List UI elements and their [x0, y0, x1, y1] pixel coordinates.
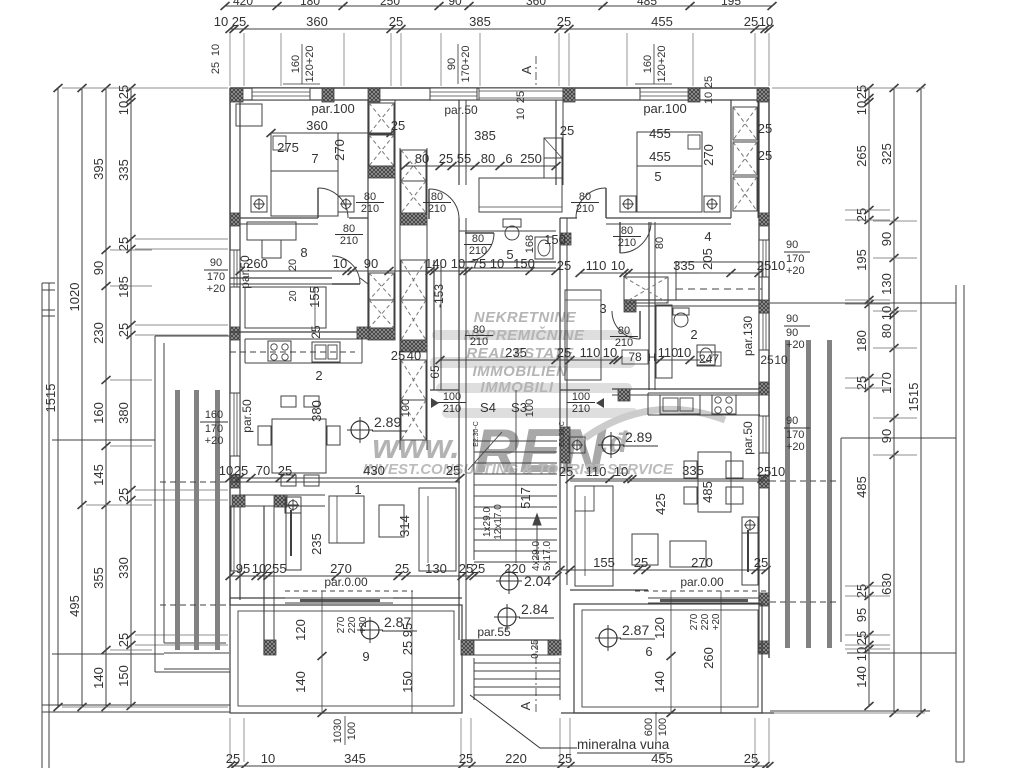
- svg-text:395: 395: [91, 158, 106, 180]
- elevation 2.84 stair: [498, 608, 516, 626]
- svg-text:430: 430: [363, 463, 385, 478]
- svg-text:247: 247: [699, 352, 719, 366]
- svg-text:210: 210: [340, 235, 358, 247]
- bath2 bidet: [697, 345, 715, 365]
- svg-text:5: 5: [654, 169, 661, 184]
- right chain 1515: [920, 88, 922, 713]
- row y269 left: [240, 270, 556, 272]
- right chain fine: [868, 88, 870, 706]
- svg-text:4: 4: [704, 229, 711, 244]
- svg-text:100: 100: [657, 718, 669, 736]
- dining table left: [272, 419, 326, 473]
- left extension lines: [62, 87, 228, 89]
- svg-text:S4: S4: [480, 400, 496, 415]
- svg-text:140: 140: [854, 666, 869, 688]
- svg-text:10: 10: [210, 44, 222, 56]
- svg-text:55: 55: [457, 151, 471, 166]
- left chain 1515: [57, 88, 59, 707]
- svg-text:4x29.0: 4x29.0: [531, 541, 542, 571]
- svg-text:160: 160: [91, 402, 106, 424]
- svg-text:10: 10: [677, 345, 691, 360]
- svg-text:150: 150: [400, 671, 415, 693]
- sink right: [660, 395, 700, 414]
- svg-text:25: 25: [471, 561, 485, 576]
- svg-text:25: 25: [232, 14, 246, 29]
- svg-text:140: 140: [652, 671, 667, 693]
- svg-text:25: 25: [234, 463, 248, 478]
- svg-text:1020: 1020: [67, 283, 82, 312]
- svg-text:75: 75: [472, 256, 486, 271]
- svg-text:100: 100: [400, 399, 412, 417]
- room8 dresser: [247, 222, 296, 240]
- svg-text:10: 10: [614, 464, 628, 479]
- svg-text:+20: +20: [786, 265, 805, 277]
- svg-text:25: 25: [557, 258, 571, 273]
- svg-text:110: 110: [586, 464, 607, 479]
- svg-text:10: 10: [515, 108, 527, 120]
- stair enclosure: [473, 430, 475, 560]
- svg-text:2.89: 2.89: [374, 414, 401, 430]
- window left 90/170: [230, 250, 240, 287]
- door room8: [332, 256, 360, 284]
- svg-text:25: 25: [854, 631, 869, 645]
- 78 box + H: [622, 350, 648, 364]
- sofa left unit: [419, 488, 456, 571]
- svg-text:150: 150: [544, 232, 566, 247]
- svg-text:25: 25: [559, 464, 573, 479]
- svg-text:110: 110: [658, 345, 679, 360]
- row y479 right: [570, 478, 762, 480]
- svg-text:260: 260: [246, 256, 268, 271]
- svg-text:1: 1: [354, 482, 361, 497]
- room3 closet xbox: [624, 277, 668, 303]
- svg-text:95: 95: [854, 608, 869, 622]
- window left 160/170: [230, 393, 240, 456]
- right pergola dashed ties: [770, 480, 838, 482]
- dashed par line right terrace: [635, 590, 770, 592]
- coffee table left: [379, 505, 404, 537]
- svg-text:455: 455: [649, 126, 671, 141]
- svg-text:25: 25: [265, 561, 279, 576]
- svg-text:160: 160: [642, 55, 654, 73]
- svg-text:360: 360: [526, 0, 546, 8]
- wall right unit bath top: [624, 299, 759, 301]
- svg-text:235: 235: [309, 533, 324, 555]
- svg-text:270: 270: [689, 613, 700, 630]
- bottom extension lines: [229, 718, 231, 762]
- left chain segments: [105, 88, 107, 707]
- svg-text:10: 10: [451, 256, 465, 271]
- svg-text:25: 25: [210, 62, 222, 74]
- svg-text:25: 25: [439, 151, 453, 166]
- svg-text:2: 2: [690, 327, 697, 342]
- svg-text:170: 170: [207, 271, 225, 283]
- svg-text:140: 140: [425, 256, 447, 271]
- svg-text:185: 185: [116, 276, 131, 298]
- stair treads: [474, 440, 557, 442]
- svg-text:10: 10: [261, 751, 275, 766]
- svg-text:25: 25: [757, 258, 771, 273]
- top extension lines: [229, 33, 231, 86]
- svg-text:168: 168: [524, 235, 536, 253]
- terrace 6 outline: [574, 604, 762, 713]
- svg-text:25: 25: [309, 325, 323, 339]
- svg-text:360: 360: [306, 14, 328, 29]
- svg-text:E2.30-C: E2.30-C: [473, 421, 480, 447]
- stove right: [712, 395, 736, 414]
- svg-text:80: 80: [415, 151, 429, 166]
- svg-text:90: 90: [786, 415, 798, 427]
- wall living bottom left + slider: [230, 597, 285, 599]
- left pergola dashed ties: [160, 481, 228, 483]
- wall right kitchen top: [612, 388, 759, 390]
- room7 nightstand left: [251, 196, 267, 212]
- svg-text:25: 25: [744, 14, 758, 29]
- window right 90 par130: [759, 313, 769, 350]
- svg-text:270: 270: [332, 139, 347, 161]
- room3 bed: [565, 290, 601, 380]
- svg-text:25: 25: [395, 561, 409, 576]
- svg-text:10: 10: [333, 256, 347, 271]
- svg-text:25: 25: [560, 123, 574, 138]
- svg-text:140: 140: [91, 667, 106, 689]
- room5 nightstands: [620, 196, 636, 212]
- exterior wall left: [229, 88, 231, 605]
- svg-text:180: 180: [854, 330, 869, 352]
- watermark gray bars: [430, 330, 638, 418]
- svg-text:170: 170: [786, 253, 804, 265]
- svg-text:130: 130: [425, 561, 447, 576]
- svg-text:8: 8: [300, 245, 307, 260]
- wall under top bedrooms left: [240, 217, 318, 219]
- svg-text:485: 485: [700, 481, 715, 503]
- door room5 right: [576, 188, 606, 218]
- svg-text:250: 250: [520, 151, 542, 166]
- svg-text:80: 80: [618, 325, 630, 337]
- exterior wall top: [230, 87, 769, 89]
- svg-text:210: 210: [443, 403, 461, 415]
- svg-text:230: 230: [91, 322, 106, 344]
- svg-text:25: 25: [116, 85, 131, 99]
- room8 bed: [245, 287, 326, 328]
- svg-text:IMMOBILI: IMMOBILI: [480, 379, 553, 396]
- svg-text:NEKRETNINE: NEKRETNINE: [474, 309, 577, 326]
- svg-text:600: 600: [643, 718, 655, 736]
- svg-text:335: 335: [116, 159, 131, 181]
- svg-text:80: 80: [472, 233, 484, 245]
- svg-text:155: 155: [593, 555, 615, 570]
- svg-text:par.55: par.55: [477, 625, 511, 639]
- row y478 left: [230, 477, 460, 479]
- svg-text:1515: 1515: [906, 383, 921, 412]
- shaft xbox C1: [401, 150, 426, 181]
- piers right wall: [759, 213, 769, 226]
- svg-text:25: 25: [754, 555, 768, 570]
- kitchen counter right: [648, 392, 760, 394]
- svg-text:5x17.0: 5x17.0: [542, 541, 553, 571]
- svg-text:160: 160: [290, 55, 302, 73]
- svg-text:80: 80: [343, 223, 355, 235]
- svg-text:par.50: par.50: [741, 421, 755, 455]
- svg-text:80: 80: [473, 324, 485, 336]
- svg-text:10: 10: [603, 345, 617, 360]
- svg-text:10: 10: [116, 101, 131, 115]
- party spine left: [367, 100, 369, 340]
- svg-text:E2.30-C: E2.30-C: [559, 421, 566, 447]
- room4 wardrobe: [676, 262, 762, 300]
- svg-text:205: 205: [700, 248, 715, 270]
- shaft xbox R3: [733, 177, 757, 211]
- svg-text:90: 90: [91, 261, 106, 275]
- room7 dims: [271, 132, 391, 134]
- svg-text:25: 25: [757, 464, 771, 479]
- svg-text:260: 260: [701, 647, 716, 669]
- svg-text:120: 120: [652, 617, 667, 639]
- svg-text:10: 10: [774, 353, 788, 367]
- svg-text:270: 270: [691, 555, 713, 570]
- svg-text:25: 25: [703, 76, 715, 88]
- door bath5: [465, 233, 494, 262]
- pier bath5 wall: [561, 233, 571, 245]
- svg-text:380: 380: [116, 402, 131, 424]
- svg-text:10: 10: [490, 256, 504, 271]
- svg-text:220: 220: [505, 751, 527, 766]
- svg-text:80: 80: [579, 191, 591, 203]
- svg-text:630: 630: [879, 573, 894, 595]
- svg-text:455: 455: [649, 149, 671, 164]
- row y267 right: [580, 272, 759, 274]
- row y358 center: [440, 359, 618, 361]
- svg-text:par.100: par.100: [311, 101, 354, 116]
- svg-text:2: 2: [315, 368, 322, 383]
- wall under top bedroom right: [606, 217, 731, 219]
- svg-text:130: 130: [879, 273, 894, 295]
- svg-text:210: 210: [576, 203, 594, 215]
- svg-text:25: 25: [116, 488, 131, 502]
- svg-text:25: 25: [634, 555, 648, 570]
- tv unit right: [742, 517, 758, 585]
- dining table right: [698, 452, 731, 512]
- room7 wardrobe: [236, 104, 262, 126]
- svg-text:20: 20: [287, 259, 299, 271]
- svg-text:10: 10: [219, 463, 233, 478]
- wall room8 bottom: [230, 277, 332, 279]
- window top-left 160: [252, 88, 310, 100]
- svg-text:235: 235: [505, 345, 527, 360]
- svg-text:360: 360: [306, 118, 328, 133]
- mineralna vuna leader: [470, 695, 577, 748]
- svg-text:A: A: [518, 701, 533, 710]
- hall closet: [479, 178, 562, 212]
- svg-text:110: 110: [580, 345, 601, 360]
- svg-text:150: 150: [513, 256, 535, 271]
- elevation 2.89 right: [602, 436, 620, 454]
- shaft xbox L4: [369, 300, 394, 328]
- svg-text:385: 385: [474, 128, 496, 143]
- shaft xbox L1: [369, 103, 394, 134]
- window right 90/170: [759, 240, 769, 277]
- stair dims: [474, 575, 557, 577]
- stair flight divider: [515, 390, 517, 563]
- svg-text:+20: +20: [205, 435, 224, 447]
- svg-text:6: 6: [645, 644, 652, 659]
- svg-text:25: 25: [760, 353, 774, 367]
- row y573 left: [230, 575, 470, 577]
- ventilation symbol stair wall: [569, 437, 585, 453]
- row y568 right: [560, 569, 766, 571]
- pier stair wall right: [560, 427, 570, 463]
- svg-text:25: 25: [116, 323, 131, 337]
- armchair right: [670, 541, 706, 567]
- shaft xbox R1: [733, 107, 757, 140]
- svg-text:155: 155: [307, 286, 322, 308]
- svg-text:220: 220: [700, 613, 711, 630]
- room7 nightstand right: [338, 196, 354, 212]
- svg-text:2.04: 2.04: [524, 573, 551, 589]
- svg-text:25: 25: [116, 237, 131, 251]
- svg-text:9: 9: [362, 649, 369, 664]
- bath2 toilet: [674, 313, 688, 327]
- svg-text:90: 90: [786, 313, 798, 325]
- svg-text:270: 270: [336, 616, 347, 633]
- svg-text:+20: +20: [786, 441, 805, 453]
- svg-text:90: 90: [446, 58, 458, 70]
- stair top wall: [430, 389, 459, 391]
- stair arrow: [533, 514, 541, 560]
- svg-text:70: 70: [256, 463, 270, 478]
- svg-text:330: 330: [116, 557, 131, 579]
- left pergola slats: [175, 390, 180, 650]
- svg-text:12x17.0: 12x17.0: [493, 504, 504, 540]
- svg-text:mineralna vuna: mineralna vuna: [577, 737, 670, 752]
- right corridor wall: [648, 222, 650, 390]
- svg-text:90: 90: [879, 429, 894, 443]
- svg-text:455: 455: [651, 14, 673, 29]
- left lower wall step: [263, 506, 265, 655]
- shaft xbox C3: [401, 260, 426, 300]
- elevation 2.87 left terrace: [361, 621, 379, 639]
- svg-text:5: 5: [506, 247, 513, 262]
- svg-text:495: 495: [67, 595, 82, 617]
- svg-text:100: 100: [346, 722, 358, 740]
- door hall-left unit: [429, 189, 459, 219]
- svg-text:90: 90: [786, 239, 798, 251]
- svg-text:220: 220: [347, 616, 358, 633]
- svg-text:120+20: 120+20: [656, 45, 668, 82]
- bath5 top wall: [459, 230, 556, 232]
- svg-text:100: 100: [443, 391, 461, 403]
- right terrace inner line: [841, 437, 956, 439]
- svg-text:25: 25: [116, 633, 131, 647]
- svg-text:3: 3: [599, 301, 606, 316]
- svg-text:0.25: 0.25: [530, 639, 541, 659]
- svg-text:25: 25: [758, 121, 772, 136]
- svg-text:170: 170: [786, 429, 804, 441]
- exterior wall right: [768, 88, 770, 658]
- bath5 sink: [535, 237, 553, 259]
- svg-text:325: 325: [879, 143, 894, 165]
- svg-text:10: 10: [611, 258, 625, 273]
- svg-text:par.100: par.100: [643, 101, 686, 116]
- svg-text:+20: +20: [358, 616, 369, 633]
- svg-text:65: 65: [428, 365, 442, 379]
- dashed par line left terrace: [285, 590, 413, 592]
- svg-text:345: 345: [344, 751, 366, 766]
- wall kitchen top left: [230, 331, 358, 333]
- svg-text:210: 210: [618, 237, 636, 249]
- svg-text:10: 10: [771, 464, 785, 479]
- property line left (double): [41, 283, 43, 768]
- svg-text:95: 95: [236, 561, 250, 576]
- kitchen dashed centerline: [230, 351, 355, 353]
- entrance outside steps: [474, 662, 560, 664]
- svg-text:7: 7: [311, 151, 318, 166]
- svg-text:25: 25: [446, 463, 460, 478]
- pier kitchen wall right: [357, 327, 369, 339]
- landing wall par55: [462, 639, 556, 641]
- svg-text:420: 420: [233, 0, 253, 8]
- svg-text:210: 210: [572, 403, 590, 415]
- svg-text:25: 25: [557, 345, 571, 360]
- svg-text:6: 6: [505, 151, 512, 166]
- window right 90/170 par50: [759, 416, 769, 453]
- svg-text:+20: +20: [711, 613, 722, 630]
- svg-text:120: 120: [293, 619, 308, 641]
- right chain segments: [893, 88, 895, 713]
- svg-text:120+20: 120+20: [304, 45, 316, 82]
- svg-text:145: 145: [91, 464, 106, 486]
- party spine center: [399, 148, 401, 450]
- wall dining top left: [230, 481, 460, 483]
- svg-text:170: 170: [879, 372, 894, 394]
- shaft xbox R2: [733, 142, 757, 175]
- terrace 9 outline: [230, 605, 462, 713]
- door room4: [620, 222, 651, 253]
- right pergola slats: [785, 340, 790, 648]
- armchair left: [329, 496, 364, 543]
- left chain 1020/495: [81, 88, 83, 707]
- svg-text:385: 385: [469, 14, 491, 29]
- corridor wall left unit: [433, 260, 435, 390]
- svg-text:90: 90: [879, 232, 894, 246]
- room7 bed: [271, 133, 338, 216]
- svg-text:20: 20: [288, 290, 299, 302]
- svg-text:25: 25: [854, 85, 869, 99]
- svg-text:H: H: [648, 352, 656, 364]
- hall right wall: [555, 100, 557, 185]
- right top shaft column: [730, 100, 732, 218]
- stove left: [268, 341, 291, 361]
- svg-text:335: 335: [673, 258, 695, 273]
- svg-text:25: 25: [391, 118, 405, 133]
- entrance door opening: [479, 88, 563, 100]
- left pergola frame: [154, 336, 156, 672]
- entrance pier: [563, 88, 575, 102]
- svg-text:210: 210: [361, 203, 379, 215]
- svg-text:25: 25: [226, 751, 240, 766]
- shaft xbox C4: [401, 300, 426, 340]
- svg-text:90: 90: [448, 0, 462, 8]
- right extension lines: [772, 87, 925, 89]
- door bath2: [612, 311, 640, 339]
- svg-text:270: 270: [330, 561, 352, 576]
- right site line top: [770, 302, 956, 304]
- svg-text:25: 25: [744, 751, 758, 766]
- svg-text:25: 25: [400, 641, 415, 655]
- wall right living bottom + slider: [570, 589, 648, 591]
- svg-text:485: 485: [637, 0, 657, 8]
- svg-text:10: 10: [854, 101, 869, 115]
